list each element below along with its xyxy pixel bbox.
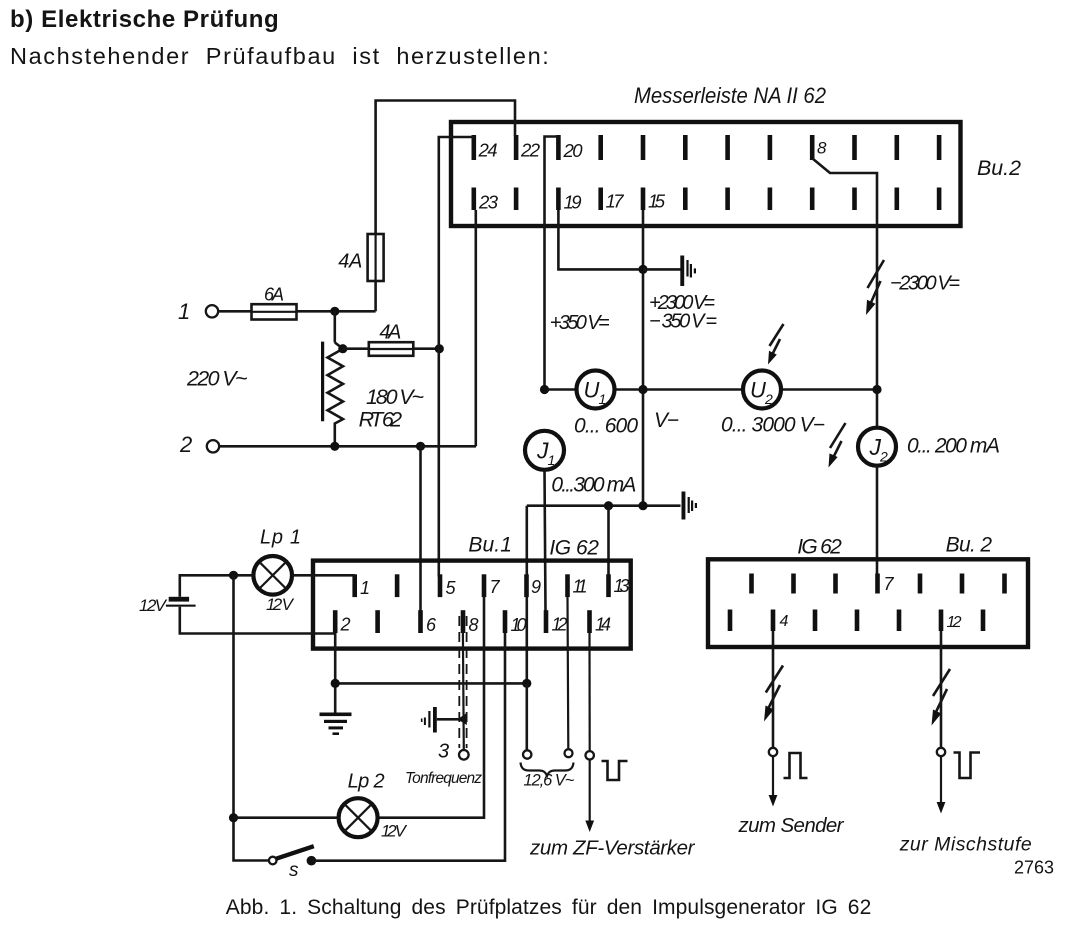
Bu.1 pin labels top row [360, 576, 630, 598]
svg-text:10: 10 [511, 615, 527, 635]
wire pin 19 down and right to ground row [558, 210, 643, 269]
lightning bolt on pin 4 lead [764, 666, 783, 722]
pin number 24 [478, 140, 498, 161]
wire Bu.1 pin 14 down to ZF terminal [588, 633, 590, 751]
svg-text:17: 17 [606, 191, 625, 212]
connector Bu.2 (Messerleiste NA II 62) box [451, 122, 961, 226]
label 12 V under Lp1 [266, 595, 295, 614]
wire J2 down to IG62 pin 7 [876, 466, 879, 574]
meter U2 [743, 371, 781, 409]
label 12 V Lp2 [381, 822, 408, 841]
wire HV line to U-row junction [876, 261, 879, 428]
number 2763 [1014, 858, 1054, 878]
label s [289, 860, 299, 881]
label +2300 V= [649, 292, 715, 314]
pin number 7 (IG62) [884, 574, 895, 594]
svg-text:+350 V=: +350 V= [550, 312, 610, 334]
svg-text:3: 3 [438, 741, 449, 763]
fuse 6A [252, 304, 297, 319]
svg-text:zur Mischstufe: zur Mischstufe [899, 834, 1032, 856]
wire junction down to 12.6V terminal 1 [525, 683, 528, 750]
svg-text:23: 23 [478, 192, 499, 213]
junction 4A fuse / pin-24 riser [435, 344, 444, 353]
arrow zur Mischstufe [937, 756, 946, 813]
pin number 22 [520, 140, 541, 161]
arrow zum ZF-Verstaerker [585, 760, 594, 833]
pulse symbol negative (ZF) [602, 761, 628, 780]
pin number 17 [606, 191, 625, 212]
svg-text:1: 1 [548, 452, 556, 468]
fuse 4A horizontal [369, 342, 414, 356]
junction Lp2 row [229, 813, 238, 822]
label V- [654, 409, 679, 432]
junction on terminal-1 row [330, 307, 339, 316]
svg-text:7: 7 [490, 577, 501, 597]
label Bu. 2 above bottom connector [946, 534, 993, 557]
svg-text:Messerleiste NA II 62: Messerleiste NA II 62 [634, 83, 826, 108]
svg-text:12,6 V~: 12,6 V~ [523, 772, 574, 790]
label -2300 V= [890, 273, 960, 295]
wire battery top to Lp1 to Bu.1 pin 1 [180, 575, 355, 597]
pin number 23 [478, 192, 499, 213]
svg-text:4A: 4A [338, 251, 362, 273]
svg-text:180 V~: 180 V~ [366, 385, 424, 409]
junction ground row / pin15 line [638, 501, 647, 510]
pin number 15 [648, 191, 666, 212]
svg-text:s: s [289, 860, 299, 881]
pin number 20 [563, 140, 584, 161]
junction pin9 ground row [522, 679, 531, 688]
wire junction to ground symbol [643, 268, 681, 271]
svg-text:2: 2 [764, 391, 773, 407]
label RT 62 [359, 408, 403, 432]
label 4A (horizontal fuse) [379, 322, 401, 344]
meter U1 [577, 371, 615, 409]
pulse symbol negative (Mischstufe) [954, 753, 981, 779]
wire Bu.1 pin 7 down to Lp2 [378, 597, 484, 818]
svg-text:U: U [584, 378, 600, 403]
wire top loop from 4A fuse to pin 22 [376, 101, 515, 235]
wire Bu.1 pin2 down / ground row lower [335, 633, 527, 713]
wire tap to fuse 4A horizontal [343, 347, 369, 350]
shield ground symbol (Tonfrequenz) [421, 707, 467, 733]
ground row y=505.7 [527, 504, 681, 507]
svg-text:12 V: 12 V [266, 595, 295, 614]
label -350 V = [649, 311, 717, 333]
label 0...300 mA [551, 474, 636, 497]
svg-text:Abb. 1. Schaltung des Prüfpla: Abb. 1. Schaltung des Prüfplatzes für de… [226, 896, 872, 919]
svg-text:Bu.2: Bu.2 [977, 157, 1021, 180]
svg-text:0...300 mA: 0...300 mA [551, 474, 636, 497]
svg-text:0... 200 mA: 0... 200 mA [907, 435, 1000, 458]
svg-text:−2300 V=: −2300 V= [890, 273, 960, 295]
label Tonfrequenz [405, 770, 482, 787]
switch s open terminal [269, 857, 277, 865]
svg-text:9: 9 [531, 577, 541, 597]
svg-text:12: 12 [552, 615, 568, 635]
svg-text:1: 1 [178, 299, 190, 324]
wire IG62 pin 4 down [772, 631, 775, 748]
svg-text:12: 12 [947, 614, 962, 631]
svg-text:zum ZF-Verstärker: zum ZF-Verstärker [529, 837, 696, 860]
label 4A (vertical fuse) [338, 251, 362, 273]
svg-text:5: 5 [446, 578, 457, 598]
ground symbol (top) [680, 256, 696, 287]
ground symbol (middle) [682, 492, 698, 520]
IG62 top row pins [749, 574, 1007, 594]
wire pin 20 jog to +350V line [545, 137, 559, 390]
svg-text:2: 2 [340, 615, 351, 635]
lightning bolt on pin 12 lead [932, 669, 951, 726]
terminal zur Mischstufe [937, 748, 945, 756]
wire pin 23 drop to terminal-2 row [474, 210, 477, 446]
svg-text:U: U [750, 378, 766, 403]
svg-text:22: 22 [520, 140, 541, 161]
svg-text:8: 8 [469, 615, 479, 635]
svg-text:20: 20 [563, 140, 584, 161]
transformer RT62 winding [328, 311, 344, 446]
svg-text:Tonfrequenz: Tonfrequenz [405, 770, 482, 787]
svg-text:1: 1 [599, 391, 607, 407]
pin number 4 (IG62) [780, 613, 789, 630]
junction U1 right [638, 385, 647, 394]
svg-text:IG 62: IG 62 [549, 537, 599, 560]
svg-text:Bu. 2: Bu. 2 [946, 534, 993, 557]
lightning bolt left of J2 [829, 423, 846, 468]
wire U-row horizontal [545, 388, 878, 391]
transformer tap junction [338, 344, 347, 353]
label 12,6 V~ [523, 772, 574, 790]
junction U-row / HV line [872, 385, 881, 394]
lightning bolt above U2 [768, 324, 784, 365]
svg-text:Bu.1: Bu.1 [468, 534, 512, 557]
junction terminal-2 / Bu.1 pin 6 drop [416, 442, 425, 451]
svg-text:12V: 12V [139, 596, 168, 615]
wire battery bottom to Bu.1 pin 2 [180, 607, 335, 634]
switch s lever [276, 846, 314, 859]
lightning bolt on -2300V line [866, 260, 884, 315]
label zum Sender [738, 814, 845, 837]
terminal 12.6V a [523, 750, 531, 758]
label Bu.1 [468, 534, 512, 557]
svg-text:zum Sender: zum Sender [738, 814, 845, 837]
svg-text:b) Elektrische Prüfung: b) Elektrische Prüfung [10, 6, 279, 33]
meter J1 [525, 431, 564, 470]
svg-text:Nachstehender Prüfaufbau ist h: Nachstehender Prüfaufbau ist herzustelle… [10, 43, 550, 69]
svg-text:V −: V − [654, 409, 679, 432]
wire Bu.1 pin 11 down to 12.6V terminal 2 [566, 597, 569, 749]
terminal 1 [206, 305, 218, 317]
svg-text:2: 2 [179, 432, 192, 457]
svg-text:4: 4 [780, 613, 789, 630]
label IG 62 above bottom connector [797, 536, 842, 559]
terminal zum Sender [769, 748, 777, 756]
wire left drop from Lp1 row to switch row [234, 575, 269, 860]
pin number 8 [817, 139, 827, 158]
junction U1 left [540, 385, 549, 394]
label Bu.2 top right [977, 157, 1021, 180]
pin number 19 [564, 192, 582, 213]
wire junction down to Bu.1 pin 13 [607, 506, 610, 575]
wire 4A fuse bottom to terminal-1 row [374, 281, 377, 311]
wire terminal 1 to fuse 6A [218, 310, 251, 313]
svg-text:4A: 4A [379, 322, 401, 344]
pulse symbol positive (Sender) [784, 753, 808, 778]
terminal 2 [207, 440, 219, 452]
svg-text:24: 24 [478, 140, 498, 161]
terminal 12.6V b [565, 749, 573, 757]
label Messerleiste NA II 62 [634, 83, 826, 108]
wire fuse 4A to pin-24 riser [413, 347, 439, 350]
meter J2 [858, 428, 896, 466]
Bu.1 pin labels bottom row [340, 615, 612, 636]
wire fuse 6A to junction and on to 4A riser [297, 310, 376, 313]
svg-text:15: 15 [648, 191, 666, 212]
label 220 V~ [186, 367, 248, 391]
junction Lp1 row / left drop [229, 571, 238, 580]
wire IG62 pin 12 down [940, 631, 943, 748]
svg-text:12 V: 12 V [381, 822, 408, 841]
svg-text:1: 1 [360, 578, 370, 598]
fuse 4A vertical [368, 234, 384, 281]
label 0...600 [574, 415, 638, 438]
IG62 bottom row pins [728, 610, 986, 632]
caption [226, 896, 872, 919]
label IG 62 above Bu.1 [549, 537, 599, 560]
svg-text:19: 19 [564, 192, 582, 213]
wire terminal-2 row [219, 445, 476, 448]
switch s right terminal [307, 856, 317, 866]
Bu.1 top row pins [352, 574, 610, 597]
wire junction down to Bu.1 pin 6 [419, 446, 422, 611]
svg-text:11: 11 [573, 577, 588, 597]
lamp Lp2 [339, 798, 378, 837]
svg-text:6: 6 [426, 615, 437, 635]
label 2 [179, 432, 192, 457]
Bu.1 bottom row pins [333, 610, 592, 633]
label 6A [264, 285, 284, 305]
label 12V battery [139, 596, 168, 615]
junction pin2 ground row [331, 679, 340, 688]
wire switch to Bu.1 pin 10 [311, 633, 505, 861]
label +350 V= [550, 312, 610, 334]
svg-text:13: 13 [614, 576, 630, 596]
wire pin 24 riser down to Bu.1 pin 5 [439, 137, 474, 577]
connector Bu.1 box [313, 561, 631, 649]
brace 12.6V [521, 763, 574, 777]
svg-text:0... 600: 0... 600 [574, 415, 638, 438]
svg-text:8: 8 [817, 139, 827, 158]
heading line 2 [10, 43, 550, 69]
svg-text:14: 14 [595, 615, 611, 635]
pin number 12 (IG62) [947, 614, 962, 631]
label Lp 2 [348, 771, 385, 793]
svg-text:7: 7 [884, 574, 895, 594]
battery 12V [166, 597, 196, 607]
svg-text:220 V~: 220 V~ [186, 367, 248, 391]
svg-text:IG 62: IG 62 [797, 536, 842, 559]
label Lp 1 [260, 527, 301, 549]
transformer core bar [321, 342, 324, 422]
connector IG62/Bu.2 box [708, 559, 1028, 647]
wire J1 down to Bu.1 pin 12 [545, 470, 546, 611]
label 180 V~ [366, 385, 424, 409]
label zur Mischstufe [899, 834, 1032, 856]
junction pin15/pin19 ground row [638, 265, 647, 274]
label zum ZF-Verstaerker [529, 837, 696, 860]
svg-text:2763: 2763 [1014, 858, 1054, 878]
label 3 [438, 741, 449, 763]
junction transformer bottom [330, 442, 339, 451]
svg-text:2: 2 [879, 449, 888, 465]
lamp Lp1 [253, 556, 292, 595]
svg-text:Lp 2: Lp 2 [348, 771, 385, 793]
svg-text:0... 3000 V−: 0... 3000 V− [721, 414, 825, 437]
terminal ZF [586, 751, 594, 759]
heading line 1 [10, 6, 279, 33]
label 0...200 mA [907, 435, 1000, 458]
Messerleiste bottom row pins [472, 188, 942, 211]
arrow zum Sender [769, 756, 778, 806]
wire corner down to Bu.1 pin 9 and through to lower junction [525, 506, 528, 684]
wire Lp2 left to junction [234, 816, 339, 819]
terminal 3 Tonfrequenz [459, 750, 469, 760]
svg-text:Lp 1: Lp 1 [260, 527, 301, 549]
shielded pair dashed lines from pin 8 [459, 616, 466, 748]
label 1 [178, 299, 190, 324]
svg-text:RT 62: RT 62 [359, 408, 403, 432]
label 0...3000 V- [721, 414, 825, 437]
junction ground row / pin 13 drop [604, 501, 613, 510]
svg-text:6A: 6A [264, 285, 284, 305]
Messerleiste top row pins [472, 135, 942, 160]
earth ground symbol [320, 713, 352, 736]
wire pin 8 jog to HV line [813, 159, 878, 262]
wire pin 8 to Tonfrequenz terminal [462, 633, 465, 750]
svg-text:− 350 V =: − 350 V = [649, 311, 717, 333]
wire pin 15 line down (+2300/-350) [642, 210, 645, 506]
